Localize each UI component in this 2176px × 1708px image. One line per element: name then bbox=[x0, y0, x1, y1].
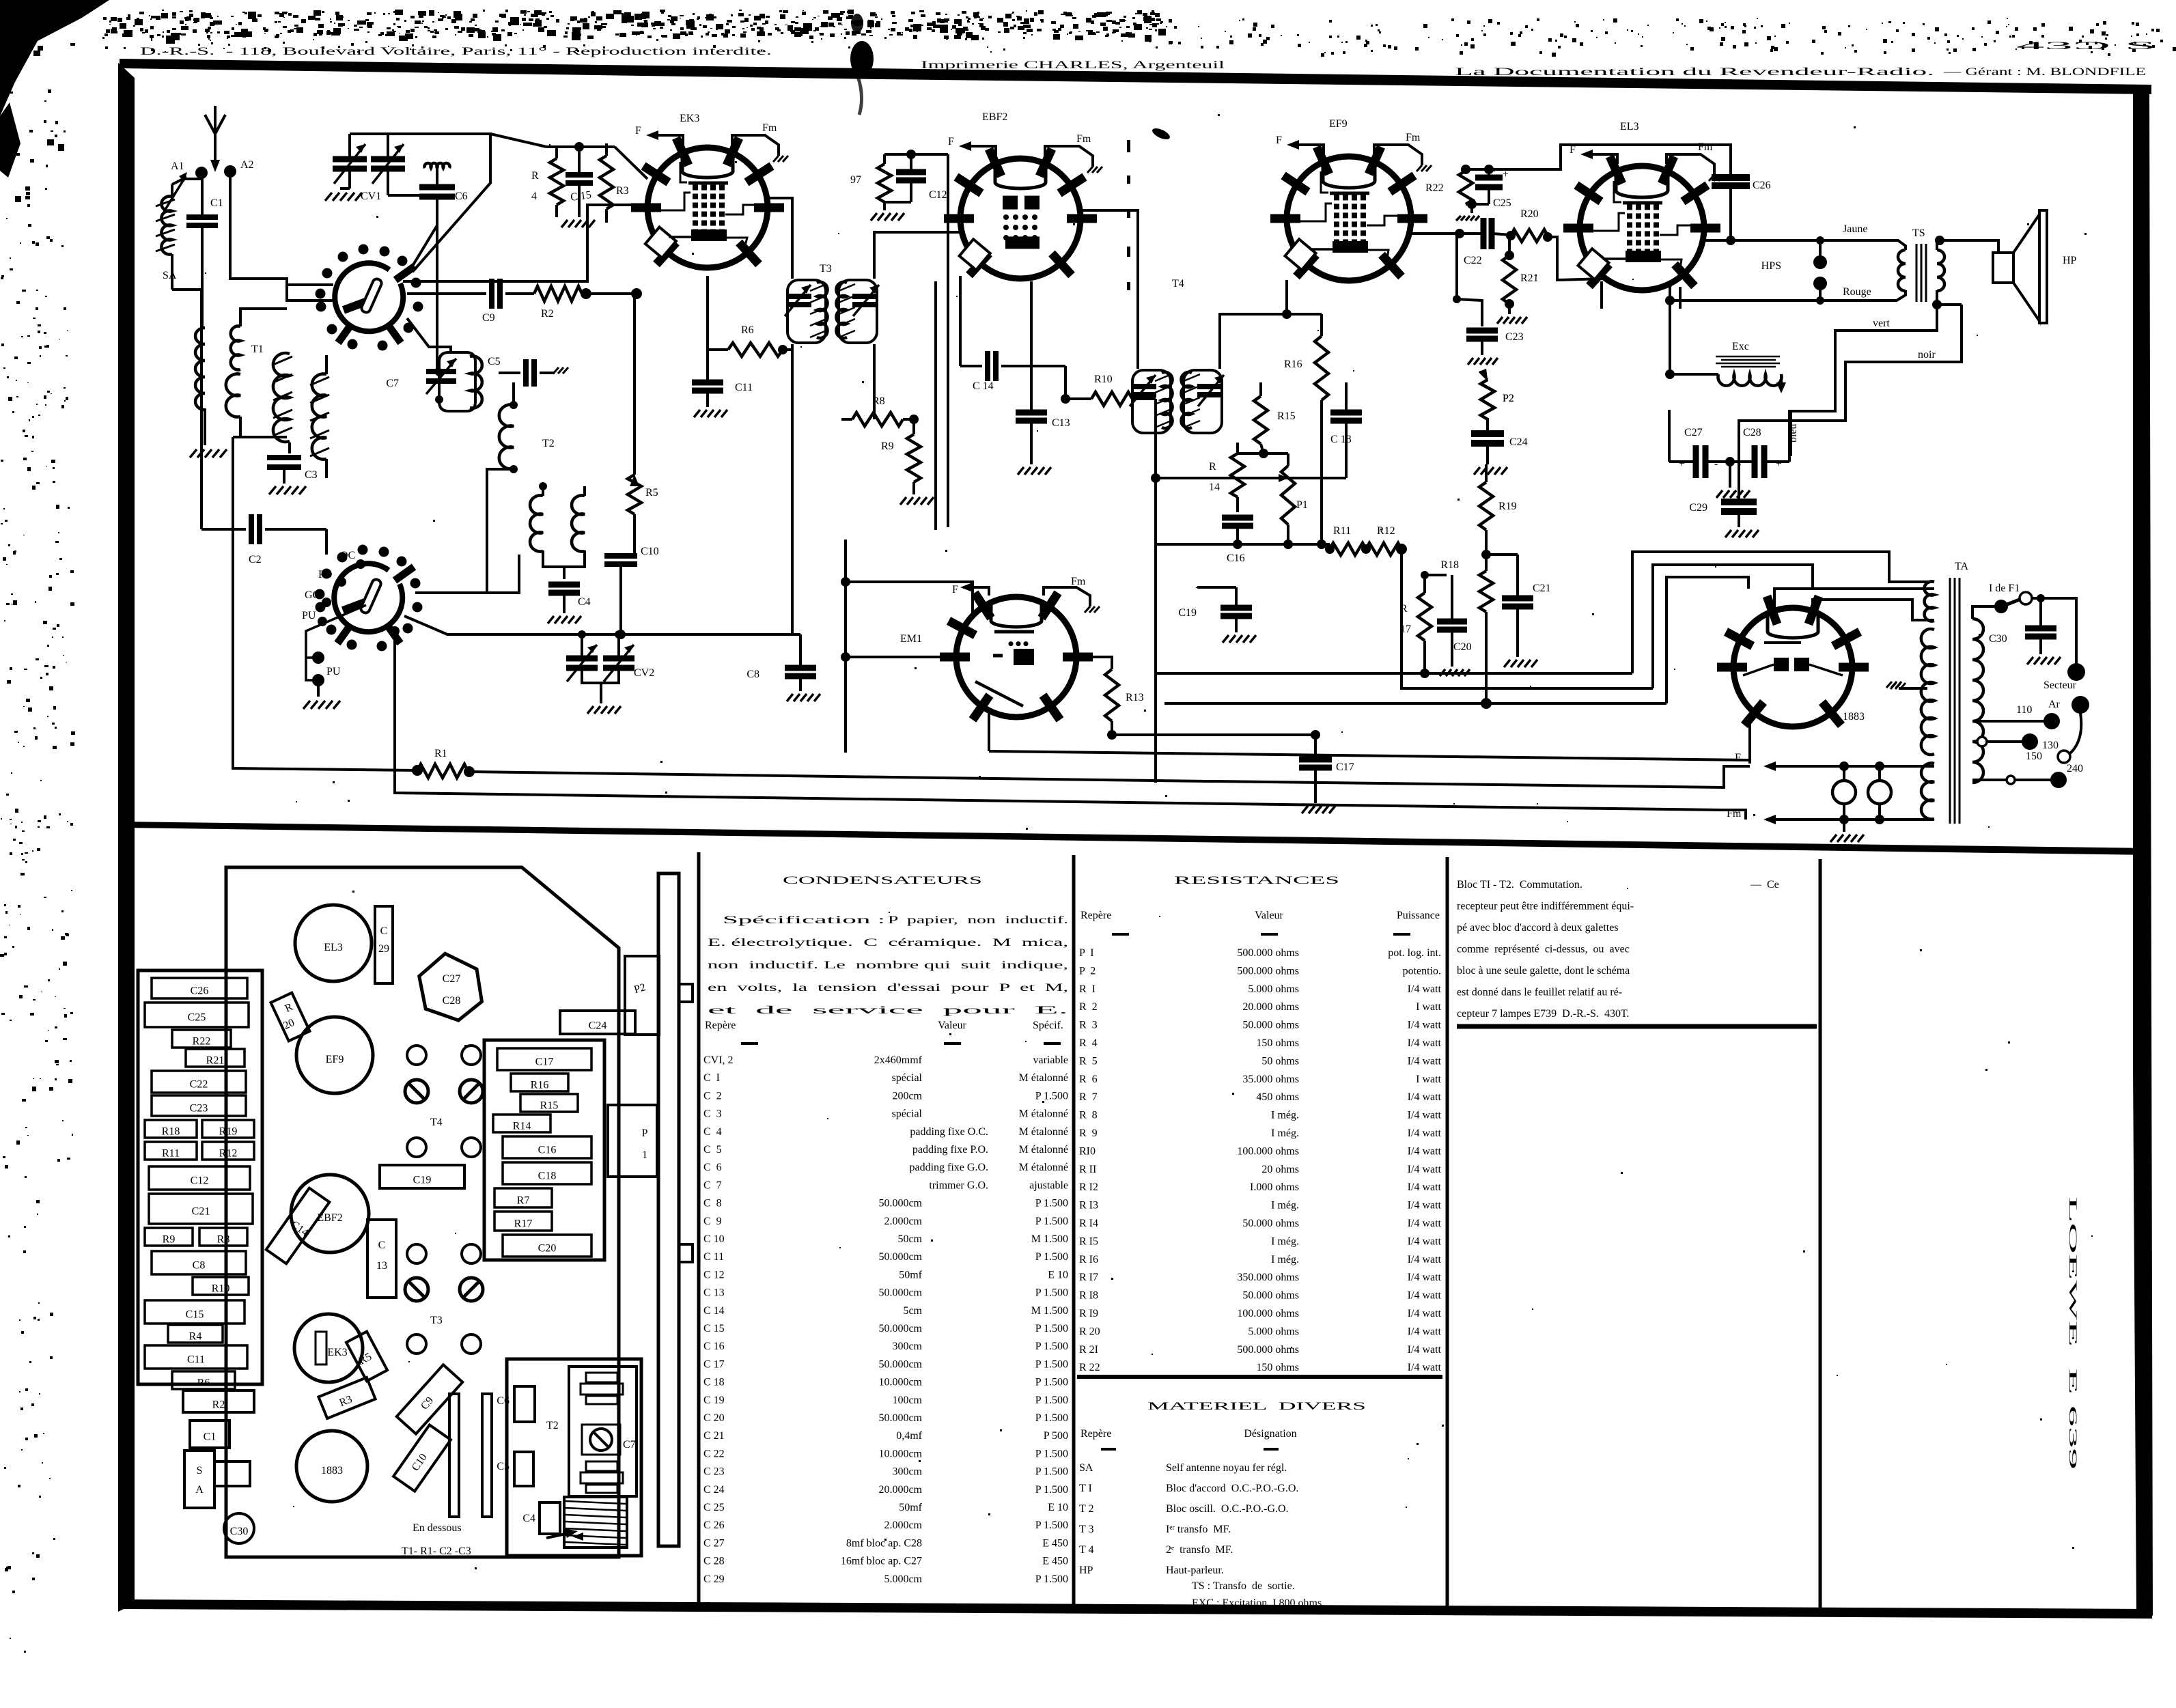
svg-text:110: 110 bbox=[2016, 704, 2032, 716]
svg-text:recepteur peut être indifférem: recepteur peut être indifféremment équi- bbox=[1457, 901, 1634, 912]
svg-text:potentio.: potentio. bbox=[1403, 965, 1441, 977]
svg-text:I még.: I még. bbox=[1271, 1235, 1299, 1247]
potentiometer P1 (chassis) bbox=[608, 1105, 657, 1177]
svg-text:est donné dans le feuillet rel: est donné dans le feuillet relatif au ré… bbox=[1457, 987, 1622, 998]
svg-text:8mf bloc ap. C28: 8mf bloc ap. C28 bbox=[846, 1537, 922, 1549]
svg-text:1883: 1883 bbox=[1843, 711, 1865, 723]
svg-text:P 1.500: P 1.500 bbox=[1035, 1358, 1068, 1370]
svg-text:C21: C21 bbox=[192, 1206, 210, 1218]
svg-text:A2: A2 bbox=[240, 159, 254, 171]
capacitor C16 bbox=[1222, 515, 1253, 521]
svg-text:20 ohms: 20 ohms bbox=[1261, 1164, 1299, 1175]
svg-text:C5: C5 bbox=[497, 1461, 510, 1472]
svg-text:350.000 ohms: 350.000 ohms bbox=[1237, 1272, 1299, 1283]
svg-text:C25: C25 bbox=[1493, 197, 1511, 209]
svg-text:P 1.500: P 1.500 bbox=[1035, 1520, 1068, 1531]
svg-text:C 15: C 15 bbox=[703, 1323, 725, 1334]
svg-text:Haut-parleur.: Haut-parleur. bbox=[1166, 1565, 1224, 1576]
svg-text:-: - bbox=[1738, 458, 1741, 470]
svg-text:5.000cm: 5.000cm bbox=[884, 1573, 922, 1585]
svg-text:C30: C30 bbox=[1989, 633, 2007, 645]
svg-text:pot. log. int.: pot. log. int. bbox=[1388, 947, 1441, 959]
resistor R9 (chassis strip) bbox=[145, 1228, 193, 1246]
svg-text:non inductif. Le nombre qui: non inductif. Le nombre qui suit indique… bbox=[708, 960, 1068, 971]
svg-text:C20: C20 bbox=[1453, 641, 1472, 653]
svg-text:C 3: C 3 bbox=[703, 1108, 722, 1120]
capacitor C26 (chassis strip) bbox=[152, 978, 247, 998]
svg-text:R10: R10 bbox=[1094, 374, 1113, 385]
svg-text:C6: C6 bbox=[455, 191, 468, 202]
screen bus wires down bbox=[947, 154, 949, 527]
svg-text:I/4 watt: I/4 watt bbox=[1408, 1020, 1442, 1031]
svg-text:13: 13 bbox=[376, 1260, 387, 1272]
capacitor C3 bbox=[288, 443, 291, 453]
svg-text:R I2: R I2 bbox=[1079, 1181, 1098, 1193]
svg-text:C1: C1 bbox=[210, 197, 223, 209]
tuning capacitor CV1 bbox=[333, 156, 367, 163]
svg-text:C27: C27 bbox=[443, 973, 461, 985]
tube EK3 (chassis) bbox=[294, 1314, 363, 1382]
resistor R1 bbox=[233, 437, 415, 770]
svg-text:T1: T1 bbox=[251, 344, 264, 355]
svg-text:Jaune: Jaune bbox=[1843, 223, 1867, 235]
svg-text:C 18: C 18 bbox=[703, 1377, 725, 1388]
svg-text:C6: C6 bbox=[497, 1395, 510, 1407]
svg-text:I/4 watt: I/4 watt bbox=[1408, 1037, 1442, 1049]
wire 1883 filament bbox=[1752, 714, 1753, 738]
svg-text:TS: TS bbox=[1912, 227, 1925, 239]
svg-text:P 2: P 2 bbox=[1079, 965, 1096, 977]
svg-text:29: 29 bbox=[378, 943, 389, 955]
wire EK3 plate to T3 bbox=[768, 198, 792, 279]
svg-text:R19: R19 bbox=[219, 1126, 238, 1138]
capacitor C17 (chassis strip 2) bbox=[497, 1048, 591, 1070]
svg-text:E 450: E 450 bbox=[1042, 1556, 1068, 1567]
svg-text:I/4 watt: I/4 watt bbox=[1408, 1254, 1442, 1265]
svg-text:R22: R22 bbox=[1425, 182, 1444, 194]
svg-text:P 1.500: P 1.500 bbox=[1035, 1287, 1068, 1299]
table MATERIEL DIVERS bbox=[1077, 1375, 1442, 1379]
terminal A1 bbox=[195, 167, 208, 179]
filament F arrow (EL3) bbox=[1591, 154, 1617, 164]
svg-text:50.000cm: 50.000cm bbox=[878, 1358, 922, 1370]
svg-text:Bloc d'accord O.C.-P.O.-G.O.: Bloc d'accord O.C.-P.O.-G.O. bbox=[1166, 1483, 1298, 1494]
svg-text:T2: T2 bbox=[546, 1420, 559, 1431]
svg-text:P: P bbox=[642, 1128, 648, 1139]
resistor R12 (chassis strip) bbox=[202, 1142, 254, 1160]
svg-text:P 1.500: P 1.500 bbox=[1035, 1466, 1068, 1478]
svg-text:Bloc TI - T2. Commutation.: Bloc TI - T2. Commutation. bbox=[1457, 879, 1582, 891]
svg-text:C 20: C 20 bbox=[703, 1412, 725, 1424]
filament F arrow (EK3) bbox=[657, 135, 683, 145]
svg-text:HPS: HPS bbox=[1761, 260, 1781, 272]
svg-text:Repère: Repère bbox=[1080, 1428, 1111, 1440]
svg-text:TS : Transfo de sortie.: TS : Transfo de sortie. bbox=[1192, 1580, 1295, 1592]
capacitor C17 bbox=[1314, 735, 1317, 754]
svg-text:et de service pour E.: et de service pour E. bbox=[708, 1005, 1068, 1016]
svg-text:F: F bbox=[952, 584, 958, 596]
svg-text:R2: R2 bbox=[212, 1399, 225, 1410]
rotary band switch (oscillator) bbox=[334, 563, 402, 632]
svg-text:R15: R15 bbox=[540, 1100, 559, 1112]
svg-text:P 1.500: P 1.500 bbox=[1035, 1448, 1068, 1459]
svg-text:I/4 watt: I/4 watt bbox=[1408, 1218, 1442, 1229]
tube 1883 (chassis) bbox=[296, 1431, 367, 1502]
ground (C3) bbox=[269, 486, 276, 494]
svg-text:P papier, non inductif.: P papier, non inductif. bbox=[888, 914, 1068, 926]
resistor R6 bbox=[728, 343, 783, 356]
svg-text:— Ce: — Ce bbox=[1745, 879, 1779, 891]
svg-text:C28: C28 bbox=[443, 995, 461, 1007]
capacitor C18 bbox=[1330, 410, 1362, 416]
capacitor C11 (chassis strip) bbox=[145, 1345, 247, 1369]
svg-text:500.000 ohms: 500.000 ohms bbox=[1237, 965, 1299, 977]
svg-text:En dessous: En dessous bbox=[413, 1522, 462, 1534]
svg-text:trimmer G.O.: trimmer G.O. bbox=[929, 1179, 988, 1191]
svg-text:20.000 ohms: 20.000 ohms bbox=[1242, 1001, 1299, 1013]
capacitor C22 (chassis strip) bbox=[152, 1071, 246, 1093]
svg-text:C 22: C 22 bbox=[703, 1448, 725, 1459]
rotary band switch (RF) bbox=[335, 263, 403, 331]
svg-text:R12: R12 bbox=[1377, 525, 1395, 537]
resistor R18 (chassis strip) bbox=[145, 1120, 197, 1138]
svg-text:C28: C28 bbox=[1743, 427, 1761, 438]
svg-text:I/4 watt: I/4 watt bbox=[1408, 1344, 1442, 1356]
antenna bbox=[205, 115, 225, 134]
svg-text:PU: PU bbox=[326, 666, 341, 677]
wire 1883 cathode hatch bbox=[1852, 675, 1892, 677]
svg-text:R 2: R 2 bbox=[1079, 1001, 1098, 1013]
svg-text:ajustable: ajustable bbox=[1029, 1179, 1068, 1191]
svg-text:comme représenté ci-dessus,: comme représenté ci-dessus, ou avec bbox=[1457, 944, 1630, 955]
capacitor C13 (chassis) bbox=[367, 1220, 396, 1298]
svg-text:4: 4 bbox=[531, 191, 537, 202]
svg-text:EXC : Excitation I.800 ohms.: EXC : Excitation I.800 ohms. bbox=[1192, 1597, 1324, 1609]
tube EF9 (chassis) bbox=[296, 1017, 373, 1093]
svg-text:50.000cm: 50.000cm bbox=[878, 1198, 922, 1209]
svg-text:I/4 watt: I/4 watt bbox=[1408, 1091, 1442, 1103]
svg-text:C 14: C 14 bbox=[973, 380, 994, 392]
svg-text:CV1: CV1 bbox=[361, 191, 381, 202]
capacitor C9 (chassis) bbox=[397, 1364, 462, 1433]
svg-text:LOEWE E 639: LOEWE E 639 bbox=[2067, 1196, 2078, 1470]
capacitor C2 bbox=[200, 290, 203, 529]
pickup terminal PU bbox=[306, 605, 366, 680]
svg-text:50cm: 50cm bbox=[897, 1233, 922, 1245]
svg-text:T1- R1- C2 -C3: T1- R1- C2 -C3 bbox=[402, 1545, 471, 1557]
svg-text:50.000cm: 50.000cm bbox=[878, 1251, 922, 1263]
svg-text:C19: C19 bbox=[413, 1174, 432, 1186]
svg-text:R 2I: R 2I bbox=[1079, 1344, 1098, 1356]
svg-text:MATERIEL DIVERS: MATERIEL DIVERS bbox=[1147, 1401, 1366, 1412]
svg-text:Exc: Exc bbox=[1732, 341, 1749, 352]
svg-text:C7: C7 bbox=[623, 1439, 636, 1451]
svg-text:5.000 ohms: 5.000 ohms bbox=[1248, 983, 1299, 995]
tube EBF2 (chassis) bbox=[291, 1175, 369, 1252]
IF transformer T4 (chassis) bbox=[407, 1046, 426, 1065]
svg-text:C 14: C 14 bbox=[703, 1305, 725, 1317]
svg-text:R9: R9 bbox=[881, 440, 894, 452]
svg-text:C24: C24 bbox=[1509, 436, 1528, 448]
svg-text:R13: R13 bbox=[1126, 692, 1144, 703]
ground (antenna coil) bbox=[190, 449, 197, 458]
capacitor C26 bbox=[1634, 145, 1731, 177]
svg-text:C 25: C 25 bbox=[703, 1502, 725, 1513]
svg-text:C 29: C 29 bbox=[703, 1573, 725, 1585]
dial lamp 1 bbox=[1832, 781, 1856, 804]
svg-text:R I9: R I9 bbox=[1079, 1308, 1098, 1319]
svg-text:50.000 ohms: 50.000 ohms bbox=[1242, 1290, 1299, 1302]
svg-text:C: C bbox=[378, 1240, 386, 1251]
svg-text:F: F bbox=[1735, 752, 1741, 764]
svg-text:I/4 watt: I/4 watt bbox=[1408, 1055, 1442, 1067]
svg-text:50mf: 50mf bbox=[899, 1269, 922, 1280]
resistor R22 (chassis strip) bbox=[172, 1030, 231, 1048]
svg-text:C11: C11 bbox=[187, 1354, 205, 1366]
svg-text:C 26: C 26 bbox=[703, 1520, 725, 1531]
svg-text:T 3: T 3 bbox=[1079, 1524, 1093, 1535]
chassis layout outline bbox=[226, 867, 619, 1557]
svg-text:R I7: R I7 bbox=[1079, 1272, 1098, 1283]
svg-text:E. électrolytique. C céramiq: E. électrolytique. C céramique. M mica, bbox=[708, 937, 1068, 949]
svg-text:35.000 ohms: 35.000 ohms bbox=[1242, 1074, 1299, 1085]
capacitor C14 (chassis) bbox=[266, 1188, 330, 1264]
svg-text:C22: C22 bbox=[1464, 255, 1482, 266]
svg-text:I még.: I még. bbox=[1271, 1254, 1299, 1265]
wire CV1 to switch bbox=[388, 195, 437, 270]
svg-text:T4: T4 bbox=[1172, 278, 1184, 290]
svg-text:I/4 watt: I/4 watt bbox=[1408, 1181, 1442, 1193]
svg-text:variable: variable bbox=[1033, 1054, 1068, 1066]
svg-text:R 7: R 7 bbox=[1079, 1091, 1098, 1103]
svg-text:Bloc oscill. O.C.-P.O.-G.O.: Bloc oscill. O.C.-P.O.-G.O. bbox=[1166, 1503, 1289, 1515]
svg-text:C17: C17 bbox=[1336, 761, 1354, 773]
svg-text:C7: C7 bbox=[386, 378, 399, 389]
wire noir bbox=[1739, 305, 1962, 486]
svg-text:Fm: Fm bbox=[762, 122, 777, 134]
svg-text:C12: C12 bbox=[929, 189, 947, 201]
wire Rouge bbox=[1670, 279, 1675, 300]
capacitor C20 bbox=[1437, 619, 1467, 625]
resistor R15 (chassis strip 2) bbox=[520, 1094, 578, 1112]
screen rail to EL3 bbox=[1466, 145, 1634, 169]
capacitor C10 (chassis) bbox=[393, 1425, 451, 1491]
svg-text:PO: PO bbox=[318, 569, 332, 580]
capacitor C20 (chassis strip 2) bbox=[503, 1235, 591, 1257]
svg-text:Désignation: Désignation bbox=[1244, 1428, 1296, 1440]
capacitor C24 (chassis) bbox=[560, 1011, 635, 1034]
chassis rear plate bbox=[658, 873, 679, 1546]
svg-text:R17: R17 bbox=[514, 1218, 533, 1230]
capacitor C19 (chassis) bbox=[380, 1165, 464, 1188]
svg-text:I/4 watt: I/4 watt bbox=[1408, 1362, 1442, 1373]
svg-text:Ar: Ar bbox=[2048, 699, 2061, 710]
svg-text:R2: R2 bbox=[541, 308, 554, 320]
svg-text:R21: R21 bbox=[206, 1055, 225, 1067]
svg-text:La Documentation du Revendeur-: La Documentation du Revendeur-Radio. bbox=[1455, 66, 1934, 78]
oscillator coil GO bbox=[439, 352, 475, 411]
capacitor C11 bbox=[692, 380, 723, 386]
svg-text:R5: R5 bbox=[645, 487, 658, 499]
svg-text:padding fixe P.O.: padding fixe P.O. bbox=[912, 1144, 988, 1156]
svg-text:EBF2: EBF2 bbox=[982, 111, 1007, 123]
svg-text:R I6: R I6 bbox=[1079, 1254, 1098, 1265]
svg-text:C 21: C 21 bbox=[703, 1430, 725, 1442]
svg-text:CONDENSATEURS: CONDENSATEURS bbox=[783, 875, 982, 886]
svg-text:C 8: C 8 bbox=[703, 1198, 722, 1209]
svg-text:50.000cm: 50.000cm bbox=[878, 1287, 922, 1299]
svg-text:C26: C26 bbox=[191, 985, 209, 997]
svg-text:C16: C16 bbox=[538, 1145, 557, 1156]
svg-text:C18: C18 bbox=[538, 1171, 557, 1182]
filament F arrow (EM1) bbox=[970, 587, 989, 596]
wire TS to speaker bbox=[1937, 240, 1998, 253]
dial cords (chassis) bbox=[449, 1394, 459, 1517]
wire EL3 plate (Jaune) to TS bbox=[1701, 240, 1906, 250]
wire T3 secondary down bbox=[791, 350, 794, 634]
svg-text:C 9: C 9 bbox=[703, 1216, 722, 1227]
tuner block T2 (chassis) bbox=[507, 1359, 641, 1556]
svg-text:E 10: E 10 bbox=[1048, 1502, 1068, 1513]
svg-text:A1: A1 bbox=[171, 160, 184, 172]
capacitor C21 (chassis strip) bbox=[149, 1194, 253, 1224]
padding capacitor C4 bbox=[543, 550, 564, 579]
svg-text:C29: C29 bbox=[1689, 502, 1707, 514]
svg-text:-: - bbox=[1714, 458, 1718, 470]
svg-text:Spécification :: Spécification : bbox=[723, 914, 885, 926]
svg-text:R I3: R I3 bbox=[1079, 1200, 1098, 1212]
svg-text:en volts, la tension d'ess: en volts, la tension d'essai pour P et M… bbox=[708, 982, 1068, 994]
svg-text:C12: C12 bbox=[191, 1175, 209, 1187]
svg-text:150 ohms: 150 ohms bbox=[1256, 1362, 1299, 1373]
capacitor C1 bbox=[186, 214, 218, 220]
svg-text:C24: C24 bbox=[589, 1020, 607, 1031]
svg-text:GO: GO bbox=[305, 589, 320, 601]
svg-text:C20: C20 bbox=[538, 1243, 557, 1255]
wire vert bbox=[1791, 305, 1937, 456]
capacitor C25 (chassis strip) bbox=[145, 1003, 249, 1027]
svg-text:C 11: C 11 bbox=[703, 1251, 724, 1263]
svg-text:A: A bbox=[195, 1484, 204, 1496]
svg-text:P 1.500: P 1.500 bbox=[1035, 1090, 1068, 1102]
svg-text:C 18: C 18 bbox=[1330, 434, 1352, 445]
resistor R11 (chassis strip) bbox=[145, 1142, 197, 1160]
capacitor C24 bbox=[1471, 430, 1504, 437]
svg-text:noir: noir bbox=[1918, 349, 1936, 361]
TA filament winding bbox=[1921, 764, 1934, 820]
svg-text:I/4 watt: I/4 watt bbox=[1408, 1164, 1442, 1175]
svg-text:R20: R20 bbox=[1520, 208, 1539, 220]
svg-text:SA: SA bbox=[163, 270, 177, 281]
svg-text:M étalonné: M étalonné bbox=[1019, 1072, 1068, 1084]
wire EBF2 plate to T4 bbox=[1080, 210, 1138, 369]
potentiometer P2 (chassis) bbox=[625, 956, 659, 1035]
svg-text:T4: T4 bbox=[430, 1117, 443, 1128]
svg-text:R18: R18 bbox=[1440, 559, 1459, 571]
capacitor C13 bbox=[1016, 410, 1047, 416]
svg-text:C2: C2 bbox=[249, 554, 262, 565]
svg-text:Fm: Fm bbox=[1076, 133, 1091, 145]
resistor R8 (chassis strip) bbox=[199, 1228, 247, 1246]
svg-text:R19: R19 bbox=[1498, 501, 1517, 512]
resistor R5 (chassis) bbox=[346, 1332, 387, 1381]
resistor R14 (chassis strip 2) bbox=[493, 1115, 550, 1132]
svg-text:I/4 watt: I/4 watt bbox=[1408, 1272, 1442, 1283]
svg-text:I de F1: I de F1 bbox=[1989, 583, 2020, 594]
svg-text:C17: C17 bbox=[535, 1056, 554, 1068]
svg-text:C8: C8 bbox=[193, 1260, 206, 1272]
svg-text:R 4: R 4 bbox=[1079, 1037, 1098, 1049]
resistor R10 (chassis strip) bbox=[193, 1277, 249, 1295]
svg-text:R14: R14 bbox=[513, 1121, 531, 1132]
svg-text:R 22: R 22 bbox=[1079, 1362, 1100, 1373]
wire A2 drop bbox=[230, 171, 335, 300]
resistor R19 (chassis strip) bbox=[202, 1120, 254, 1138]
svg-text:50mf: 50mf bbox=[899, 1502, 922, 1513]
svg-text:R15: R15 bbox=[1277, 410, 1296, 422]
svg-text:C 23: C 23 bbox=[703, 1466, 725, 1478]
wire T3 bottom to R6 C11 bbox=[783, 344, 792, 382]
antenna coil primary bbox=[195, 328, 205, 410]
svg-text:Repère: Repère bbox=[1080, 910, 1111, 921]
svg-text:C 2: C 2 bbox=[703, 1090, 722, 1102]
svg-text:C 6: C 6 bbox=[703, 1162, 722, 1173]
svg-text:C27: C27 bbox=[1684, 427, 1703, 438]
svg-text:2x460mmf: 2x460mmf bbox=[874, 1054, 923, 1066]
svg-text:I/4 watt: I/4 watt bbox=[1408, 983, 1442, 995]
svg-text:R 3: R 3 bbox=[1079, 1020, 1098, 1031]
svg-text:R22: R22 bbox=[193, 1036, 211, 1048]
capacitor C22 bbox=[1481, 218, 1487, 249]
filament Fm (EBF2) bbox=[1045, 146, 1093, 167]
svg-text:F: F bbox=[1276, 135, 1282, 146]
svg-text:R: R bbox=[531, 170, 539, 182]
svg-text:HP: HP bbox=[2063, 255, 2077, 266]
svg-text:P 1.500: P 1.500 bbox=[1035, 1251, 1068, 1263]
svg-text:R6: R6 bbox=[741, 324, 754, 336]
resistor R16 (chassis strip 2) bbox=[511, 1074, 568, 1091]
svg-text:P 1.500: P 1.500 bbox=[1035, 1573, 1068, 1585]
svg-text:Imprimerie CHARLES, Argenteuil: Imprimerie CHARLES, Argenteuil bbox=[921, 59, 1225, 71]
antenna coil SA bbox=[161, 197, 172, 255]
svg-text:Fm: Fm bbox=[1698, 141, 1713, 153]
wire T3 to EBF2 grid bbox=[874, 232, 960, 279]
svg-text:I/4 watt: I/4 watt bbox=[1408, 1235, 1442, 1247]
svg-text:T3: T3 bbox=[820, 263, 832, 275]
svg-text:E 10: E 10 bbox=[1048, 1269, 1068, 1280]
svg-text:padding fixe O.C.: padding fixe O.C. bbox=[910, 1126, 988, 1138]
resistor R20 (chassis) bbox=[270, 993, 309, 1041]
svg-text:RESISTANCES: RESISTANCES bbox=[1174, 875, 1339, 886]
svg-text:I/4 watt: I/4 watt bbox=[1408, 1326, 1442, 1337]
wire T4 to EF9 grid bbox=[1220, 280, 1287, 369]
svg-text:P 1.500: P 1.500 bbox=[1035, 1198, 1068, 1209]
svg-text:C 19: C 19 bbox=[703, 1395, 725, 1406]
svg-text:R 8: R 8 bbox=[1079, 1110, 1098, 1121]
filament Fm (EL3) bbox=[1666, 154, 1714, 175]
svg-text:Fm: Fm bbox=[1727, 808, 1742, 820]
svg-text:R9: R9 bbox=[163, 1234, 176, 1246]
capacitor C18 (chassis strip 2) bbox=[503, 1162, 591, 1184]
svg-text:14: 14 bbox=[1209, 481, 1220, 493]
svg-text:Iᵉʳ transfo MF.: Iᵉʳ transfo MF. bbox=[1166, 1524, 1231, 1535]
wires EM1 left bbox=[846, 656, 956, 658]
svg-text:C1: C1 bbox=[204, 1431, 217, 1443]
svg-text:EL3: EL3 bbox=[1620, 121, 1639, 132]
capacitor C21 bbox=[1502, 596, 1533, 602]
svg-text:R I: R I bbox=[1079, 983, 1096, 995]
svg-text:I/4 watt: I/4 watt bbox=[1408, 1200, 1442, 1212]
